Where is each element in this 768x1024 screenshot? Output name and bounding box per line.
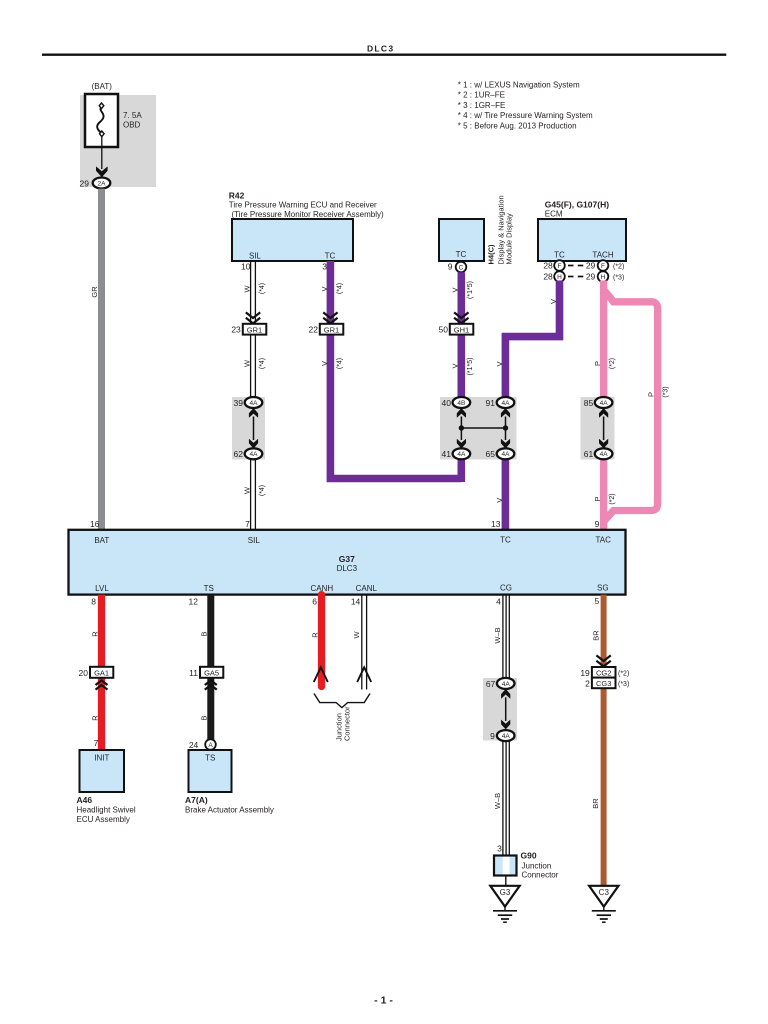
junction arrows 67-9 [501,689,510,730]
connector oval 2A [93,178,111,189]
svg-text:GR1: GR1 [247,325,262,334]
svg-text:GA5: GA5 [204,669,219,678]
arrow into connector GR1 [246,312,260,323]
svg-text:TC: TC [554,250,565,259]
svg-text:G37: G37 [339,554,355,564]
svg-text:* 5 : Before Aug. 2013 Produc: * 5 : Before Aug. 2013 Production [458,122,577,131]
fuse shading block [80,95,156,187]
component box R42 [232,219,353,261]
arrow CANH end [314,667,328,682]
svg-text:6: 6 [312,596,317,606]
svg-text:C: C [459,264,464,271]
junction arrows 39-62 [249,408,258,449]
wire V (ECM TC to G37 pin 13) [505,281,559,403]
svg-text:BR: BR [591,798,600,809]
arrow out of connector GA1 [96,680,108,689]
svg-text:F: F [558,263,562,270]
svg-text:65: 65 [486,449,496,459]
svg-text:(*4): (*4) [336,283,343,294]
svg-text:9: 9 [595,519,600,529]
svg-text:* 4 : w/ Tire Pressure Warning: * 4 : w/ Tire Pressure Warning System [458,111,593,120]
svg-text:4A: 4A [250,451,259,458]
svg-text:TC: TC [325,251,336,260]
svg-text:7: 7 [94,738,99,748]
svg-text:G3: G3 [500,888,511,897]
svg-text:29: 29 [586,261,596,271]
arrow CANL end [357,667,371,682]
svg-text:R: R [90,631,99,637]
svg-text:R42: R42 [229,190,245,200]
wire P loop (*3) branch [605,291,658,521]
wire fuse to connector 2A [101,137,103,169]
junction arrows 85-61 [599,408,608,449]
fuse terminal diamond bottom [100,131,105,137]
svg-text:(*4): (*4) [259,283,266,294]
svg-text:CANL: CANL [356,584,378,593]
svg-text:OBD: OBD [123,121,141,130]
svg-text:(*4): (*4) [259,358,266,369]
svg-text:SG: SG [597,584,609,593]
arrow into connector GH1 [454,312,468,323]
svg-text:A: A [208,742,213,749]
svg-text:(BAT): (BAT) [92,82,113,91]
svg-text:P: P [593,496,602,501]
pin circle A [205,739,216,750]
header rule [42,54,726,56]
wire B (G37 TS to A7) [207,595,214,740]
junction crossbar [461,427,505,429]
pin circle H (TACH) [598,271,609,282]
pin circle F (TACH) [598,260,609,271]
svg-text:W: W [352,631,361,639]
arrow into connector 2A [96,166,108,177]
junction dot left [459,425,464,430]
svg-text:DLC3: DLC3 [337,564,358,573]
svg-text:R: R [310,632,319,638]
svg-text:(*3): (*3) [662,386,669,397]
svg-text:3: 3 [497,843,502,853]
svg-text:W–B: W–B [493,793,502,809]
svg-text:29: 29 [80,178,90,188]
svg-text:V: V [451,363,460,368]
svg-text:GA1: GA1 [94,669,109,678]
junction shading block 67/9 [483,678,517,741]
svg-text:(*3): (*3) [618,681,629,688]
svg-text:- 1 -: - 1 - [374,995,393,1007]
svg-text:(*3): (*3) [613,274,624,281]
junction shading block 40/91 [440,397,517,460]
junction shading block 39/62 [232,397,265,460]
svg-text:Headlight Swivel: Headlight Swivel [77,806,136,815]
svg-text:BAT: BAT [94,536,109,545]
fuse element curve [97,107,103,134]
svg-text:H: H [557,274,562,281]
svg-text:2A: 2A [98,180,107,187]
svg-text:V: V [495,361,504,366]
svg-text:9: 9 [490,731,495,741]
svg-text:P: P [646,392,655,397]
svg-text:Brake Actuator Assembly: Brake Actuator Assembly [185,806,274,815]
svg-text:G45(F), G107(H): G45(F), G107(H) [545,199,609,209]
svg-text:3: 3 [322,262,327,272]
svg-text:P: P [593,361,602,366]
svg-text:91: 91 [486,398,496,408]
svg-text:TAC: TAC [595,535,611,544]
svg-text:(*2): (*2) [618,671,629,678]
svg-text:SIL: SIL [249,251,262,260]
svg-text:13: 13 [491,519,501,529]
svg-text:V: V [549,299,558,304]
component box H4 Display and Navigation Module Display [439,219,484,261]
svg-text:8: 8 [91,596,96,606]
svg-text:G90: G90 [521,851,537,861]
fuse terminal diamond top [99,103,104,109]
dashes row F [568,265,574,267]
svg-text:ECU Assembly: ECU Assembly [77,815,130,824]
svg-text:CG3: CG3 [596,679,611,688]
svg-text:SIL: SIL [248,536,261,545]
svg-text:Junction: Junction [522,862,552,871]
wire W-B (G37 CG to G90) [502,595,504,684]
svg-text:4A: 4A [600,451,609,458]
svg-text:C3: C3 [599,888,610,897]
svg-text:Module Display: Module Display [505,213,514,265]
svg-text:(Tire Pressure Monitor Receive: (Tire Pressure Monitor Receiver Assembly… [232,210,385,219]
component box G90 junction connector [494,856,517,876]
svg-text:V: V [495,498,504,503]
svg-text:GR1: GR1 [324,325,339,334]
svg-text:(*4): (*4) [336,358,343,369]
arrow out of connector GA5 [205,680,217,689]
svg-text:29: 29 [586,272,596,282]
svg-text:V: V [320,361,329,366]
svg-text:BR: BR [591,630,600,641]
svg-text:4A: 4A [600,400,609,407]
wire R (G37 LVL to A46) [98,595,105,750]
svg-text:CG2: CG2 [596,669,611,678]
wire V (R42 TC down and right to junction 41) [330,261,461,479]
wire G90 to ground [505,876,507,887]
wire GR (BAT to G37 pin 16) [98,189,105,530]
svg-text:2: 2 [585,678,590,688]
svg-text:14: 14 [351,596,361,606]
svg-text:ECM: ECM [545,210,563,219]
component box G37 DLC3 [69,530,626,595]
svg-text:5: 5 [594,596,599,606]
svg-text:* 1 : w/ LEXUS Navigation Syst: * 1 : w/ LEXUS Navigation System [458,80,580,89]
svg-text:9: 9 [448,262,453,272]
wire V (H4 TC down to junction 40/41) [457,272,465,402]
svg-text:4A: 4A [502,400,511,407]
ground G3 [490,886,519,922]
pin circle F (TC) [554,260,565,271]
svg-text:Connector: Connector [522,871,559,880]
svg-text:7. 5A: 7. 5A [123,111,142,120]
wire BR (G37 SG to ground C3) [601,595,607,886]
svg-text:Connector: Connector [343,706,352,741]
svg-text:TC: TC [456,250,467,259]
svg-text:4: 4 [496,596,501,606]
svg-text:67: 67 [486,679,496,689]
svg-text:B: B [200,631,209,636]
svg-text:TS: TS [205,754,215,763]
junction arrows 40-41 [457,408,466,449]
pin circle H (TC) [554,271,565,282]
fuse 7.5A OBD body [85,94,118,147]
svg-text:V: V [320,286,329,291]
svg-text:4A: 4A [502,451,511,458]
svg-text:TS: TS [204,584,214,593]
svg-text:11: 11 [189,668,198,678]
svg-text:61: 61 [584,449,594,459]
svg-text:(*2): (*2) [609,493,616,504]
svg-text:W: W [243,486,252,494]
svg-text:W: W [243,359,252,367]
svg-text:B: B [200,715,209,720]
svg-text:(*1*5): (*1*5) [467,358,474,376]
svg-text:4A: 4A [502,733,511,740]
svg-text:28: 28 [543,272,553,282]
component box A7 [189,750,232,792]
svg-text:TACH: TACH [592,250,613,259]
wire W SIL (R42 to G37 pin 7) [250,261,252,403]
svg-text:H4(C): H4(C) [487,244,496,265]
svg-text:10: 10 [241,262,251,272]
junction shading block 85/61 [581,397,615,460]
svg-text:W–B: W–B [493,627,502,643]
svg-text:LVL: LVL [95,584,109,593]
wire P (ECM TACH to G37 pin 9) [600,281,607,403]
svg-text:Tire Pressure Warning ECU and: Tire Pressure Warning ECU and Receiver [229,201,377,210]
svg-text:16: 16 [90,519,100,529]
svg-text:7: 7 [245,519,250,529]
junction connector brace [314,694,370,708]
svg-text:(*2): (*2) [609,358,616,369]
svg-text:A46: A46 [77,795,93,805]
svg-text:23: 23 [231,325,241,335]
svg-text:19: 19 [580,668,590,678]
arrow into connector CG2 [596,655,610,666]
svg-text:DLC3: DLC3 [367,43,394,53]
svg-text:W: W [243,285,252,293]
svg-text:(*2): (*2) [613,263,624,270]
svg-text:H: H [601,274,606,281]
component box ECM [538,219,626,261]
svg-text:4A: 4A [250,400,259,407]
wire W (G37 CANL) [361,595,363,690]
svg-text:4A: 4A [457,451,466,458]
svg-text:41: 41 [442,449,452,459]
svg-text:12: 12 [189,596,199,606]
wire R (G37 CANH) [318,595,325,687]
svg-text:TC: TC [500,535,511,544]
svg-text:28: 28 [543,261,553,271]
svg-text:4A: 4A [502,681,511,688]
svg-text:INIT: INIT [94,754,109,763]
svg-text:A7(A): A7(A) [185,795,208,805]
svg-text:(*4): (*4) [259,485,266,496]
dashes row H [568,276,574,278]
svg-text:GR: GR [90,286,99,298]
junction arrows 91-65 [501,408,510,449]
component box A46 [80,750,125,792]
svg-text:22: 22 [309,325,319,335]
svg-text:CG: CG [500,584,512,593]
svg-text:GH1: GH1 [454,325,469,334]
svg-text:40: 40 [442,398,452,408]
svg-text:24: 24 [189,740,199,750]
svg-text:R: R [90,715,99,721]
svg-text:4B: 4B [457,400,465,407]
arrow into connector GR1 [323,312,337,323]
svg-text:* 2 : 1UR–FE: * 2 : 1UR–FE [458,91,505,100]
svg-text:V: V [451,287,460,292]
pin circle C [456,262,467,273]
ground C3 [589,886,618,922]
junction dot right [503,425,508,430]
svg-text:20: 20 [79,668,89,678]
svg-text:62: 62 [234,449,244,459]
svg-text:F: F [601,263,605,270]
svg-text:85: 85 [584,398,594,408]
svg-text:39: 39 [234,398,244,408]
svg-text:(*1*5): (*1*5) [467,281,474,299]
svg-text:50: 50 [439,325,449,335]
svg-text:* 3 : 1GR–FE: * 3 : 1GR–FE [458,101,506,110]
